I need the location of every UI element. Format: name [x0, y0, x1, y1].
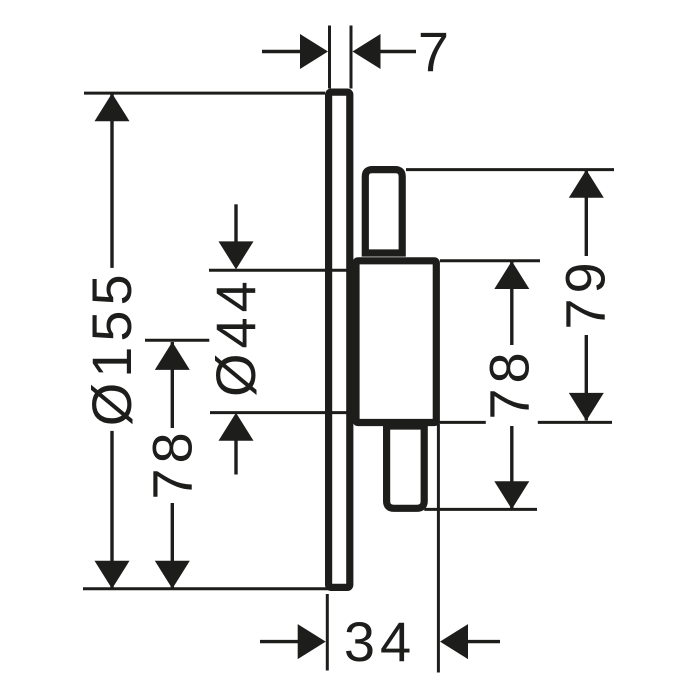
- arrow D44 top (points down): [219, 241, 254, 269]
- dimension lines and extension lines: [83, 26, 614, 673]
- svg-text:7: 7: [418, 20, 454, 83]
- dim line 78 right: [510, 261, 513, 509]
- mask D155: [86, 268, 138, 431]
- ext line top for D155: [84, 92, 325, 95]
- dim line 78 left: [171, 342, 174, 589]
- ext line plate top-right (for 7): [350, 26, 353, 89]
- arrow D155 top (points up): [95, 93, 130, 121]
- arrow 7 left (points right): [300, 34, 328, 69]
- arrow 34 right (points left): [440, 624, 468, 659]
- ext line below body front (for 34): [437, 424, 440, 673]
- ext line bottom for D44: [210, 411, 350, 414]
- dim D44 upper stub: [234, 204, 237, 243]
- arrowheads: [95, 34, 604, 659]
- ext line top for D44: [209, 269, 349, 272]
- mask D44: [209, 276, 261, 400]
- svg-text:Ø44: Ø44: [204, 276, 267, 397]
- arrow 78-left top (points up): [155, 342, 190, 370]
- arrow D155 bottom (points down): [95, 561, 130, 589]
- top port (upper connection stub): [365, 170, 402, 253]
- arrow 7 right (points left): [353, 34, 381, 69]
- ext line body bottom (for 79): [436, 421, 612, 424]
- arrow 78-right bottom (points down): [494, 481, 529, 509]
- svg-text:34: 34: [344, 610, 416, 673]
- svg-text:Ø155: Ø155: [80, 269, 143, 426]
- arrow 79 top (points up): [569, 170, 604, 198]
- wall plate (side view, 7mm thick): [329, 92, 350, 587]
- arrow D44 bottom (points up): [219, 413, 254, 441]
- ext line top port top (for 79): [406, 168, 614, 171]
- dim line 79: [585, 170, 588, 421]
- mask 79: [560, 256, 612, 335]
- ext line bottom for D155 / 78: [83, 587, 332, 590]
- arrow 79 bottom (points down): [569, 393, 604, 421]
- dim D44 lower stub: [234, 440, 237, 475]
- arrow 78-right top (points up): [494, 261, 529, 289]
- arrow 78-left bottom (points down): [155, 561, 190, 589]
- dim 34 right line: [468, 640, 500, 643]
- ext line body top (for right 78): [440, 259, 540, 262]
- svg-text:78: 78: [140, 427, 203, 499]
- mask 78-right: [486, 345, 538, 426]
- valve body (middle block): [356, 261, 436, 423]
- dim 7 left line: [262, 50, 301, 53]
- dimension texts: [80, 20, 617, 673]
- dim line D155: [110, 94, 113, 589]
- lower port (bottom connection stub): [387, 426, 425, 508]
- text mask boxes: [86, 256, 613, 503]
- svg-text:78: 78: [478, 347, 541, 419]
- ext line lower port bottom (for right 78): [424, 508, 537, 511]
- mask 78-left: [146, 428, 198, 503]
- ext line plate top-left (for 7): [328, 26, 331, 89]
- svg-text:79: 79: [554, 257, 617, 329]
- arrow 34 left (points right): [298, 624, 326, 659]
- dim 34 left line: [260, 640, 299, 643]
- ext line centre axis (for left 78): [145, 339, 214, 342]
- ext line below plate (for 34): [326, 594, 329, 671]
- dim 7 right line: [380, 50, 416, 53]
